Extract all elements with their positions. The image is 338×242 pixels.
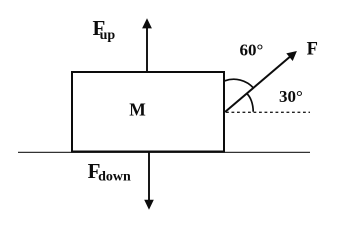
svg-text:down: down	[98, 170, 131, 185]
svg-text:30°: 30°	[279, 87, 303, 106]
svg-text:F: F	[307, 39, 318, 59]
force arrow F at angle	[225, 51, 297, 112]
force arrow F_up	[142, 18, 152, 72]
svg-text:60°: 60°	[240, 41, 264, 60]
ground line	[18, 151, 310, 153]
dashed horizontal reference line	[226, 111, 310, 113]
30 degree arc	[247, 93, 254, 111]
block M	[72, 72, 224, 152]
force arrow F_down	[144, 152, 154, 210]
svg-text:up: up	[100, 28, 116, 43]
svg-text:M: M	[129, 100, 146, 120]
60 degree arc	[225, 79, 254, 88]
